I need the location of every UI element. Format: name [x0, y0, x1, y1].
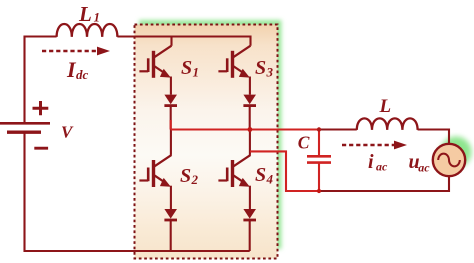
svg-text:i: i — [368, 151, 374, 173]
svg-text:L: L — [78, 2, 92, 26]
svg-text:4: 4 — [266, 172, 274, 187]
svg-text:C: C — [298, 133, 310, 153]
svg-text:3: 3 — [266, 65, 274, 80]
svg-text:2: 2 — [191, 172, 199, 187]
svg-text:S: S — [181, 57, 192, 79]
svg-text:1: 1 — [193, 65, 200, 80]
svg-text:S: S — [180, 165, 191, 187]
svg-text:V: V — [61, 123, 74, 142]
svg-text:dc: dc — [76, 67, 89, 82]
svg-text:1: 1 — [94, 10, 101, 25]
svg-text:ac: ac — [376, 160, 388, 174]
svg-text:L: L — [379, 96, 392, 117]
svg-text:S: S — [255, 164, 266, 186]
svg-text:ac: ac — [418, 161, 430, 175]
svg-text:S: S — [255, 57, 266, 79]
